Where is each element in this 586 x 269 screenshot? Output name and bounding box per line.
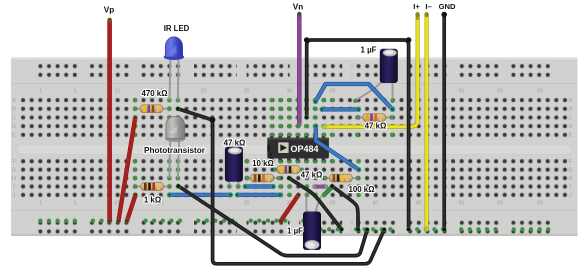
wire blue trapezoid A34 to B43	[313, 84, 395, 112]
svg-text:60: 60	[537, 89, 543, 95]
wire blue row I	[243, 184, 276, 189]
svg-text:5: 5	[74, 89, 77, 95]
wire red bottom diagonal near 1uF	[279, 193, 301, 223]
resistor 47k row G	[273, 166, 304, 174]
svg-text:10 kΩ: 10 kΩ	[252, 159, 274, 168]
wire red J13 to bottom rail	[125, 193, 138, 223]
svg-text:H: H	[569, 176, 573, 182]
wire black B18 loop under board to rail	[176, 106, 387, 263]
capacitor 47k-labelled body	[225, 147, 243, 182]
svg-text:55: 55	[497, 89, 503, 95]
IR LED body	[164, 37, 184, 60]
svg-text:45: 45	[416, 201, 422, 207]
svg-text:Vp: Vp	[104, 6, 114, 15]
resistor 10k row H	[245, 174, 281, 182]
svg-text:Phototransistor: Phototransistor	[144, 146, 206, 155]
wire black H31 to rail	[287, 176, 344, 232]
main grid holes rows A-E	[19, 96, 570, 139]
svg-text:50: 50	[459, 201, 465, 207]
resistor 1k row I	[133, 183, 171, 191]
wire yellow I+	[322, 13, 420, 130]
svg-text:D: D	[12, 124, 16, 130]
wire black GND	[441, 12, 447, 232]
svg-text:40: 40	[373, 201, 379, 207]
svg-text:100 kΩ: 100 kΩ	[348, 185, 374, 194]
op-amp U1 OP484 body	[267, 138, 329, 159]
svg-text:C: C	[12, 115, 16, 121]
svg-text:J: J	[569, 193, 572, 199]
svg-text:E: E	[569, 133, 573, 139]
svg-text:1 kΩ: 1 kΩ	[144, 196, 161, 205]
wire Vn purple	[297, 12, 301, 126]
svg-text:30: 30	[287, 89, 293, 95]
svg-text:C: C	[569, 115, 573, 121]
wire blue row J left	[167, 192, 233, 197]
svg-text:470 kΩ: 470 kΩ	[141, 89, 167, 98]
phototransistor legs	[169, 138, 179, 178]
capacitor 1uF top: leads	[353, 80, 395, 103]
svg-text:20: 20	[201, 89, 207, 95]
svg-text:1 µF: 1 µF	[287, 227, 303, 236]
svg-text:E: E	[12, 133, 16, 139]
resistor 47k row C	[355, 114, 394, 122]
wire black I18 loop under board to rail	[176, 184, 370, 256]
svg-text:OP484: OP484	[291, 144, 319, 154]
capacitor 1uF top body	[380, 49, 398, 83]
wire blue row J right	[235, 192, 283, 197]
svg-text:B: B	[569, 107, 573, 113]
wire yellow I-	[424, 13, 429, 232]
svg-text:Vn: Vn	[293, 3, 303, 12]
svg-text:I–: I–	[425, 2, 431, 11]
wire green jumper J35-I36	[322, 187, 332, 197]
wire Vp red vertical	[107, 18, 112, 223]
svg-text:I+: I+	[413, 2, 420, 11]
svg-text:1: 1	[39, 89, 42, 95]
svg-text:J: J	[13, 193, 16, 199]
svg-text:H: H	[12, 176, 16, 182]
row/column labels	[12, 89, 573, 207]
svg-text:25: 25	[244, 201, 250, 207]
capacitor 1uF bottom body	[303, 212, 321, 251]
power rail holes	[36, 62, 79, 79]
svg-text:B: B	[12, 107, 16, 113]
breadboard body	[11, 57, 578, 236]
svg-text:50: 50	[459, 89, 465, 95]
svg-text:I: I	[570, 184, 572, 190]
svg-text:55: 55	[497, 201, 503, 207]
wire blue row B	[319, 107, 361, 112]
op-amp U1 OP484 pins	[270, 136, 325, 160]
svg-text:5: 5	[74, 201, 77, 207]
svg-text:1 µF: 1 µF	[361, 45, 377, 54]
phototransistor body	[165, 116, 185, 141]
svg-text:47 kΩ: 47 kΩ	[224, 138, 246, 147]
svg-text:G: G	[568, 168, 572, 174]
svg-text:25: 25	[244, 89, 250, 95]
main grid holes rows F-J	[19, 157, 570, 199]
IR LED legs	[170, 58, 179, 100]
svg-text:A: A	[12, 98, 16, 104]
svg-text:G: G	[12, 168, 16, 174]
svg-text:10: 10	[115, 89, 121, 95]
resistor 470k row B	[133, 105, 171, 113]
green connected holes	[38, 98, 550, 232]
svg-text:D: D	[569, 124, 573, 130]
svg-text:47 kΩ: 47 kΩ	[365, 122, 387, 131]
svg-text:60: 60	[537, 201, 543, 207]
capacitor body labelled 47k: leads	[227, 178, 240, 189]
svg-text:35: 35	[330, 89, 336, 95]
wire blue D34 over chip to G39	[313, 124, 361, 173]
center channel	[17, 144, 573, 154]
wire black top loop C33 to bottom rail	[304, 37, 412, 231]
svg-text:GND: GND	[439, 2, 456, 11]
capacitor 1uF bottom: leads	[305, 193, 321, 212]
resistor 100k row H	[323, 174, 360, 182]
wire black I36 to rail	[330, 184, 361, 232]
svg-text:I: I	[13, 184, 15, 190]
purple jumper I34-I35	[312, 185, 328, 189]
svg-text:35: 35	[330, 201, 336, 207]
svg-text:1: 1	[39, 201, 42, 207]
svg-text:IR LED: IR LED	[164, 24, 190, 33]
wire red C13 to bottom rail	[116, 116, 137, 223]
svg-text:47 kΩ: 47 kΩ	[301, 171, 323, 180]
svg-text:A: A	[569, 98, 573, 104]
